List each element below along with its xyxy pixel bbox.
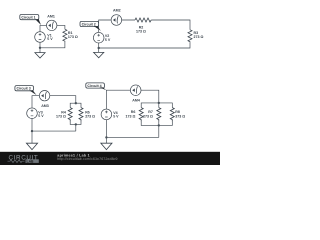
svg-text:R7: R7	[148, 110, 153, 114]
wire top rail C3	[32, 96, 76, 108]
resistor R5	[79, 108, 83, 122]
svg-text:AM1: AM1	[47, 14, 55, 18]
wire bottom rail C3	[32, 119, 76, 144]
svg-text:http://circuitlab.com/c63e7672: http://circuitlab.com/c63e7672ed8c9	[57, 157, 117, 161]
resistor R7	[157, 108, 161, 122]
wire top rail C1: V1 top to AM1 to R1 corner	[40, 25, 65, 31]
svg-text:273 Ω: 273 Ω	[85, 114, 95, 118]
svg-text:5 V: 5 V	[105, 38, 111, 42]
resistor R1	[63, 29, 67, 41]
svg-text:AM2: AM2	[113, 9, 121, 13]
voltage source V1	[35, 32, 46, 43]
footer bar	[0, 152, 220, 165]
svg-text:Circuit 2: Circuit 2	[82, 23, 96, 27]
resistor R2 horizontal	[135, 18, 151, 22]
svg-text:Circuit 4: Circuit 4	[87, 84, 101, 88]
svg-text:273 Ω: 273 Ω	[194, 35, 204, 39]
ammeter AM1	[47, 20, 57, 30]
wire top rail C4	[106, 90, 158, 109]
ammeter AM2	[111, 15, 122, 26]
voltage source V2	[93, 32, 104, 43]
wire bottom rail C2	[99, 42, 190, 52]
wire top rail C2	[99, 20, 190, 32]
node junction C4 top bus	[158, 102, 160, 104]
svg-text:Circuit 1: Circuit 1	[21, 16, 35, 20]
svg-text:173 Ω: 173 Ω	[56, 114, 66, 118]
wire bottom rail C1	[40, 42, 65, 53]
top bus C4	[141, 103, 172, 108]
node junction C1	[39, 47, 41, 49]
svg-text:AM3: AM3	[41, 104, 49, 108]
top bus C3	[70, 103, 81, 107]
voltage source V3	[27, 108, 38, 119]
bottom bus C3	[70, 122, 81, 132]
node junction C2	[98, 47, 100, 49]
svg-text:173 Ω: 173 Ω	[126, 115, 136, 119]
svg-text:R8: R8	[175, 110, 180, 114]
wire bottom rail C4	[106, 120, 158, 144]
node junction C4 bottom bus	[158, 124, 160, 126]
resistor R3	[188, 30, 192, 43]
node junction C4 rail	[105, 136, 107, 138]
resistor R8	[170, 108, 174, 122]
resistor R4	[68, 108, 72, 122]
node junction C3 bottom bus	[75, 123, 77, 125]
svg-text:5 V: 5 V	[38, 114, 44, 118]
ammeter AM4	[130, 85, 141, 96]
callout Circuit 3	[15, 86, 37, 95]
footer logo resistor + LAB	[8, 159, 39, 163]
svg-text:Circuit 3: Circuit 3	[17, 87, 31, 91]
svg-text:R6: R6	[131, 110, 136, 114]
callout Circuit 1	[20, 15, 41, 26]
voltage source V4	[101, 109, 112, 120]
callout Circuit 2	[80, 21, 101, 30]
svg-text:173 Ω: 173 Ω	[68, 35, 78, 39]
svg-text:5 V: 5 V	[47, 37, 53, 41]
ground C2	[94, 52, 104, 57]
ammeter AM3	[39, 91, 49, 101]
resistor R6	[139, 108, 143, 122]
node junction C3 rail	[31, 130, 33, 132]
svg-text:5 V: 5 V	[113, 115, 119, 119]
svg-text:273 Ω: 273 Ω	[143, 115, 153, 119]
svg-text:LAB: LAB	[27, 159, 35, 163]
ground C4	[101, 143, 112, 149]
node junction C3 top bus	[75, 102, 77, 104]
ground C1	[35, 53, 45, 58]
svg-text:AM4: AM4	[132, 99, 140, 103]
svg-text:173 Ω: 173 Ω	[136, 29, 146, 33]
bottom bus C4	[141, 122, 172, 138]
svg-text:373 Ω: 373 Ω	[175, 115, 185, 119]
callout Circuit 4	[86, 83, 106, 90]
ground C3	[26, 143, 37, 149]
